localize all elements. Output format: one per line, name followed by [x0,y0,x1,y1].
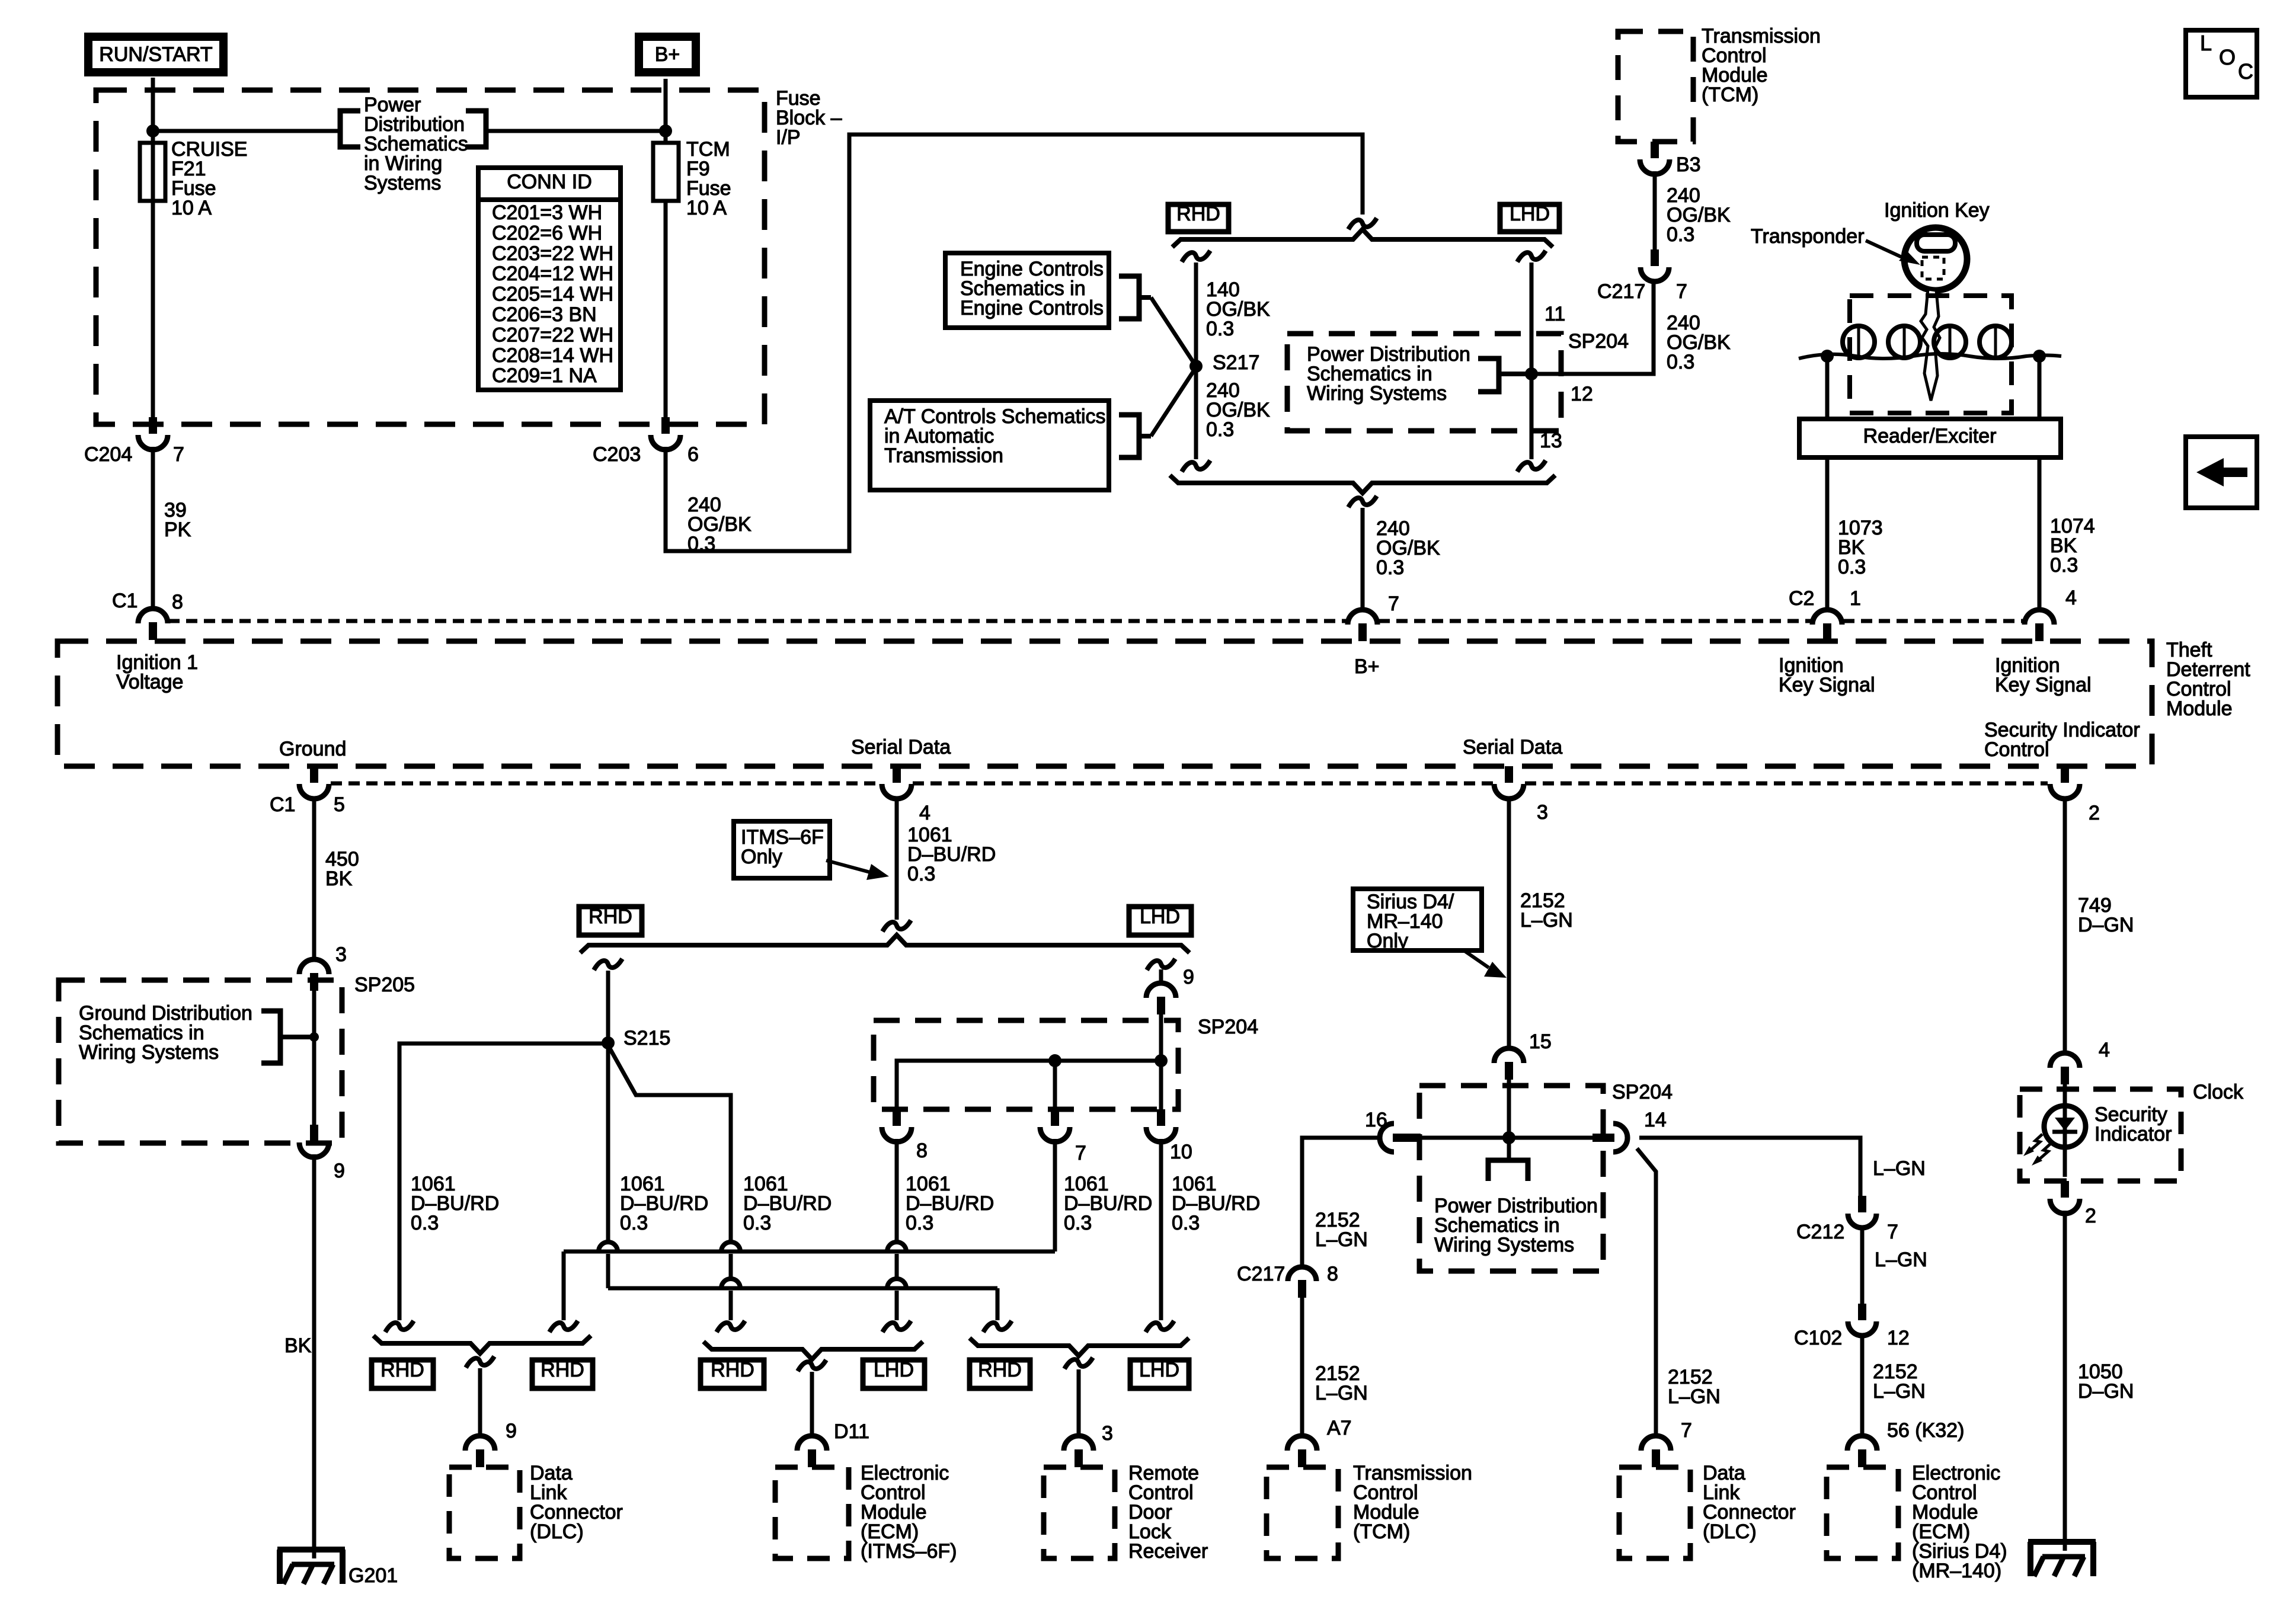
wire pin7 to crossover line A [564,1139,1055,1320]
svg-text:B+: B+ [1354,655,1380,678]
clock label [2193,1081,2244,1103]
svg-text:10 A: 10 A [171,197,212,219]
wire label 140 OG/BK 0.3 [1206,279,1270,340]
wire break end 674 [385,1321,414,1332]
power feed label box B+ [639,37,696,72]
SP204 label (serial splice) [1198,1016,1258,1038]
svg-text:3: 3 [1537,801,1548,824]
wire LHD branch upper [1530,263,1534,374]
svg-text:Wiring Systems: Wiring Systems [79,1041,219,1064]
SP204 label (splice 1) [1568,330,1629,353]
splice SP204 dashed box (serial) [874,1020,1178,1109]
ground G201 [277,1550,398,1587]
pin 16 label [1365,1109,1387,1131]
svg-text:C217: C217 [1597,280,1645,303]
svg-text:C202=6 WH: C202=6 WH [492,222,602,244]
pin 15 label [1529,1030,1552,1053]
connector remote pin 3 [1064,1436,1093,1467]
svg-text:0.3: 0.3 [1667,351,1694,373]
svg-text:14: 14 [1644,1109,1667,1131]
inline connector C102 pin 12 [1794,1304,1910,1349]
data link connector 2 dashed box [1619,1467,1690,1558]
theft module label [2166,639,2250,720]
svg-text:0.3: 0.3 [1172,1212,1200,1234]
svg-text:RHD: RHD [1176,203,1220,225]
wire SP205 to G201 [312,1154,316,1558]
connector SP204 pin 10 out [1146,1109,1192,1163]
transmission control module bottom box [1267,1467,1338,1558]
svg-text:BK: BK [284,1334,312,1357]
svg-text:C206=3 BN: C206=3 BN [492,303,597,326]
wire serial RHD to S215 [606,971,610,1043]
wire label 1061 col5 [1064,1173,1152,1234]
svg-text:Module: Module [2166,697,2233,720]
LHD label box (split 1) [1500,203,1559,232]
pin 14 label [1644,1109,1667,1131]
svg-text:RHD: RHD [589,905,632,928]
ignition key label [1884,199,1990,222]
pin 9 label (DLC) [506,1420,517,1442]
svg-text:Only: Only [741,846,782,868]
ground distribution reference text [79,1002,252,1064]
pin 56 label [1887,1419,1964,1442]
svg-text:10 A: 10 A [686,197,727,219]
svg-text:Receiver: Receiver [1128,1540,1208,1563]
svg-text:D–GN: D–GN [2078,1380,2134,1403]
pin 7 label (theft B+) [1388,593,1399,615]
svg-text:Systems: Systems [364,172,441,194]
svg-text:(ITMS–6F): (ITMS–6F) [861,1540,957,1563]
reference bracket right (power distribution) [466,111,486,147]
wire break end 1683 [983,1321,1012,1332]
wire RHD branch [1194,263,1198,459]
svg-text:Control: Control [1984,738,2049,761]
wire C217-8 to TCM A7 [1300,1298,1304,1434]
wire label 2152 L-GN (TCM) [1315,1362,1368,1404]
wire break end 1233 [717,1321,745,1332]
svg-text:12: 12 [1887,1327,1910,1349]
connector C1 pin 8 into theft module [112,590,183,640]
ECM ITMS label [861,1462,957,1563]
svg-text:(TCM): (TCM) [1353,1521,1410,1543]
svg-text:C212: C212 [1796,1221,1844,1243]
wire label 1061 col1 [411,1173,499,1234]
wire label 450 BK [325,848,359,890]
svg-text:C102: C102 [1794,1327,1842,1349]
svg-text:8: 8 [916,1140,928,1162]
connector SP204 pin 9 in [1146,969,1176,1014]
svg-text:SP204: SP204 [1568,330,1629,353]
engine controls bracket [1119,276,1151,319]
ignition 1 voltage label [116,651,198,693]
theft deterrent control module dashed box [57,641,2152,766]
security indicator label [2094,1103,2172,1145]
DLC2 label [1703,1462,1796,1543]
splice junction on LHD wire [1525,367,1538,380]
connector dotted line bottom [331,782,2048,786]
connector into SP205 [299,959,329,991]
svg-text:3: 3 [1102,1422,1113,1445]
svg-text:I/P: I/P [776,126,801,149]
Sirius pointer arrow [1464,950,1507,978]
svg-text:7: 7 [1676,280,1687,303]
data link connector dashed box [449,1467,520,1558]
svg-text:LHD: LHD [874,1359,914,1381]
svg-text:C203=22 WH: C203=22 WH [492,242,613,265]
wire S215 branch right [608,1045,731,1242]
svg-text:C204: C204 [84,443,132,466]
wire break end 1959 [1146,1321,1174,1332]
power distribution reference text [364,94,468,194]
splice bus SP204 [897,1014,1161,1109]
wire pin 3 down to SP204 [1507,796,1511,1049]
wire break serial RHD branch [594,959,622,970]
wire break serial LHD branch [1147,959,1175,970]
wire label 1061 col6 [1172,1173,1260,1234]
RHD label box (split 2) [579,905,642,935]
splice S215 [602,1027,670,1049]
svg-text:2: 2 [2089,802,2100,824]
splice junction SP205 [309,1032,319,1042]
svg-text:3: 3 [335,943,347,966]
svg-text:L: L [2200,31,2212,55]
wire C203 routed to RHD/LHD split [666,135,1363,551]
inline connector C217 pin 7 [1597,249,1687,303]
pin 13 label [1540,430,1562,452]
connector SP205 pin 9 out [299,1125,345,1182]
exciter coil loop 3 [1934,326,1966,358]
connector pin 7 into theft module [1348,610,1377,641]
brace merge DLC [373,1336,591,1353]
svg-text:0.3: 0.3 [907,863,935,885]
svg-text:CONN ID: CONN ID [507,171,592,193]
wire label 240 OG/BK 0.3 (S217) [1206,379,1270,441]
reference bracket (SP205) [261,1011,311,1063]
wire S215 main down [606,1043,610,1242]
svg-text:C207=22 WH: C207=22 WH [492,324,613,346]
RHD label box (remote left) [970,1359,1030,1388]
brace split serial RHD/LHD [580,935,1189,953]
svg-text:C217: C217 [1237,1263,1285,1285]
wire break below merge [1348,496,1377,507]
wire to DLC pin 9 [478,1368,482,1434]
svg-text:SP205: SP205 [354,974,415,996]
svg-text:4: 4 [2099,1039,2110,1061]
engine controls reference box [945,253,1109,328]
node coil left [1821,350,1834,363]
svg-text:Clock: Clock [2193,1081,2244,1103]
svg-text:9: 9 [506,1420,517,1442]
fuse block I/P dashed box [96,90,765,424]
clock dashed box [2020,1089,2181,1181]
ground net label [279,738,346,760]
wire to remote receiver pin 3 [1077,1369,1081,1434]
svg-text:(DLC): (DLC) [530,1521,584,1543]
splice bus (16 to 14) [1415,1136,1603,1140]
wire pin 14 to C212 corner [1639,1138,1860,1196]
ignition key blade [1921,289,1940,401]
svg-text:C1: C1 [112,590,137,612]
wire label 240 OG/BK 0.3 (B+) [1376,517,1440,579]
RHD label box (DLC left) [372,1359,433,1388]
splice S217 [1189,351,1259,374]
splice SP205 dashed box [59,980,342,1143]
TCM bottom label [1353,1462,1472,1543]
wire label 1061 col3 [743,1173,832,1234]
connector clock pin 4 [2050,1053,2080,1084]
svg-text:0.3: 0.3 [411,1212,439,1234]
svg-text:C208=14 WH: C208=14 WH [492,344,613,367]
wire reader to C2 pin 4 [2038,457,2042,610]
LHD label box (remote right) [1130,1359,1189,1388]
svg-text:9: 9 [334,1160,345,1182]
wire C102 to ECM2 [1860,1334,1865,1434]
wire label 1073 BK 0.3 [1838,517,1883,578]
inline connector C217 pin 8 [1237,1263,1338,1298]
ITMS-6F pointer arrow [826,860,889,880]
pin 7 label (DLC2) [1681,1419,1692,1442]
svg-text:A7: A7 [1327,1417,1352,1439]
wire break above split [1348,218,1377,229]
ignition key signal label 2 [1995,654,2092,696]
wire bracket to B+ node [486,129,666,133]
wire 1233 tail [729,1254,733,1320]
svg-text:Indicator: Indicator [2094,1123,2172,1145]
wire break RHD end [1182,460,1210,472]
wire label 1050 D-GN [2078,1361,2134,1403]
wire splice to C217 pin 12 [1531,283,1654,374]
svg-text:Ground: Ground [279,738,346,760]
connector DLC2 pin 7 [1641,1436,1671,1467]
LOC reference box [2186,30,2257,97]
svg-text:O: O [2219,45,2236,69]
pin 12 label [1571,383,1593,405]
fuse F9 TCM [653,79,679,417]
SP205 label [354,974,415,996]
power distribution reference text (SP204 power) [1434,1195,1598,1256]
connector C204 pin 7 [84,417,184,466]
wire break below remote brace [1064,1358,1093,1369]
svg-text:Reader/Exciter: Reader/Exciter [1863,425,1997,447]
svg-text:0.3: 0.3 [743,1212,771,1234]
connector C203 pin 6 [593,417,699,466]
svg-text:C: C [2238,59,2253,84]
svg-text:0.3: 0.3 [1206,418,1234,441]
svg-text:C1: C1 [270,793,295,816]
wire label 1061 D-BU/RD 0.3 (pin4) [907,824,996,885]
B+ net label [1354,655,1380,678]
ignition key head [1904,228,1967,290]
RHD label box (ECM left) [701,1359,764,1388]
svg-text:13: 13 [1540,430,1562,452]
wire B3 to C217 pin 7 [1653,171,1657,249]
node junction on B+ feed [659,124,672,137]
svg-text:Engine Controls: Engine Controls [960,297,1104,319]
svg-text:RHD: RHD [978,1359,1022,1381]
RHD label box (DLC right) [532,1359,593,1388]
wire A/T controls to S217 [1151,367,1196,436]
svg-text:12: 12 [1571,383,1593,405]
wire break above serial split [882,920,911,932]
connector C2 pin 1 [1789,587,1861,641]
svg-text:C204=12 WH: C204=12 WH [492,263,613,285]
svg-text:D–GN: D–GN [2078,914,2134,936]
ground (security indicator) [2028,1542,2096,1576]
TCM top label [1702,25,1821,106]
serial data net label 1 [851,736,951,758]
svg-text:Wiring Systems: Wiring Systems [1434,1234,1574,1256]
wire label L-GN (pin14) [1873,1157,1926,1180]
hop wire 1233 over line A [721,1242,740,1251]
wire pin 4 down [895,796,899,920]
svg-text:L–GN: L–GN [1873,1380,1926,1403]
svg-text:C201=3 WH: C201=3 WH [492,201,602,224]
svg-text:B+: B+ [655,43,680,66]
svg-text:LHD: LHD [1510,203,1550,225]
wire break end 1513 [882,1321,911,1332]
CONN ID table [478,168,621,390]
wire RUN/START to fuse F21 [151,78,155,143]
svg-text:RHD: RHD [711,1359,754,1381]
wire break below DLC brace [466,1356,494,1368]
svg-text:L–GN: L–GN [1315,1228,1368,1251]
inline connector pin 16 [1380,1124,1421,1152]
svg-text:(DLC): (DLC) [1703,1521,1757,1543]
connector pin 2 security indicator [2050,766,2100,824]
connector B3 [1640,142,1701,176]
svg-text:Wiring Systems: Wiring Systems [1307,382,1447,405]
svg-text:L–GN: L–GN [1875,1249,1927,1271]
left arrow box [2186,437,2257,508]
RHD label box (split 1) [1168,203,1229,232]
svg-text:7: 7 [1681,1419,1692,1442]
svg-text:C209=1 NA: C209=1 NA [492,364,597,387]
wire break below ECM brace [798,1360,826,1371]
wire LHD branch lower [1530,374,1534,459]
svg-text:5: 5 [334,793,345,816]
wire F21 to C204 [151,201,155,417]
ECM Sirius label [1912,1462,2007,1582]
connector SP204 pin 7 out [1040,1109,1086,1164]
reference bracket left (power distribution) [340,111,360,147]
svg-text:7: 7 [1388,593,1399,615]
wire pin10 down [1159,1139,1163,1320]
splice junction pin 7 [1048,1054,1061,1067]
wire label 240 OG/BK 0.3 (B3) [1667,184,1731,246]
wire label BK [284,1334,312,1357]
hop wire 1233 over line B [721,1279,740,1288]
wire label 1061 col4 [906,1173,994,1234]
svg-text:6: 6 [687,443,699,466]
wire break RHD branch [1182,251,1210,262]
svg-text:RHD: RHD [380,1359,424,1381]
svg-text:LHD: LHD [1140,905,1180,928]
transponder label [1751,225,1865,248]
wire label 2152 L-GN (ECM2) [1873,1361,1926,1403]
wire label 2152 L-GN (pin3) [1520,889,1573,932]
svg-text:(MR–140): (MR–140) [1912,1560,2001,1582]
svg-text:Serial Data: Serial Data [851,736,951,758]
svg-text:8: 8 [1327,1263,1338,1285]
brace merge ECM [703,1342,923,1359]
svg-text:S215: S215 [623,1027,670,1049]
svg-text:0.3: 0.3 [1206,318,1234,340]
remote receiver label [1128,1462,1208,1563]
svg-text:L–GN: L–GN [1520,909,1573,932]
DLC label [530,1462,623,1543]
LHD label box (ECM right) [863,1359,925,1388]
pin 3 label (remote) [1102,1422,1113,1445]
pin A7 label [1327,1417,1352,1439]
svg-text:(TCM): (TCM) [1702,84,1758,106]
svg-text:0.3: 0.3 [2050,554,2078,577]
security indicator LED [2044,1084,2086,1177]
svg-text:BK: BK [325,868,353,890]
connector ECM2 pin 56 [1847,1436,1877,1467]
exciter coil loop 2 [1888,326,1920,358]
svg-text:Ignition Key: Ignition Key [1884,199,1990,222]
pin 3 label (SP205) [335,943,347,966]
connector clock pin 2 out [2050,1181,2096,1227]
inline connector pin 14 [1593,1124,1627,1152]
splice junction pin 10 [1155,1054,1168,1067]
svg-text:0.3: 0.3 [620,1212,648,1234]
electronic control module ITMS box [775,1467,849,1558]
wire pin8 down with hops [887,1139,906,1320]
svg-text:C2: C2 [1789,587,1814,610]
pin D11 label [834,1420,869,1443]
svg-text:7: 7 [173,443,184,466]
svg-text:L–GN: L–GN [1873,1157,1926,1180]
wire C212 to C102 [1860,1227,1865,1304]
wire through SP205 [312,991,316,1125]
pin 9 label (SP204) [1183,966,1194,988]
wire engine controls to S217 [1151,297,1196,366]
svg-text:RHD: RHD [541,1359,584,1381]
connector ECM pin D11 [797,1436,827,1467]
svg-text:0.3: 0.3 [906,1212,933,1234]
wire pin 16 corner [1302,1138,1381,1268]
svg-text:Key Signal: Key Signal [1779,674,1875,696]
LED emission arrows [2023,1134,2051,1166]
hop wire 1026 over line A [599,1242,618,1251]
transponder dashed square [1922,257,1944,279]
connector C2 pin 4 [2025,587,2077,641]
connector TCM pin A7 [1287,1436,1317,1467]
fuse F21 CRUISE [140,143,165,201]
wire 1026 jog right (line B) [608,1254,997,1320]
svg-text:7: 7 [1887,1221,1898,1243]
power feed label box RUN/START [88,37,223,72]
wire reader to C2 pin 1 [1825,457,1830,610]
reader/exciter box [1799,419,2061,457]
svg-text:L–GN: L–GN [1315,1382,1368,1404]
svg-text:10: 10 [1170,1141,1192,1163]
svg-text:0.3: 0.3 [1064,1212,1092,1234]
fuse block label [776,87,842,149]
power distribution reference text in SP204 [1307,343,1470,405]
reference bracket (SP204 splice) [1478,359,1531,392]
node junction on RUN/START feed [146,124,159,137]
svg-text:4: 4 [2065,587,2077,609]
electronic control module Sirius box [1827,1467,1898,1558]
wire node to reference bracket [153,129,340,133]
wire C1-5 to SP205 [312,796,316,960]
A/T controls reference box [870,401,1109,490]
connector dotted line top [168,619,2023,623]
connector DLC pin 9 [465,1436,495,1467]
svg-text:PK: PK [164,518,191,541]
